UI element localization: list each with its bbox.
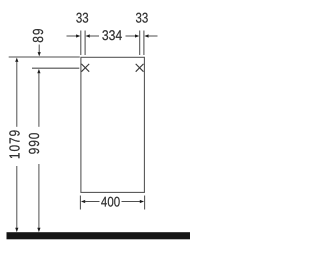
wall reference line top (1079 level) [9, 56, 80, 58]
svg-text:33: 33 [136, 10, 149, 26]
svg-text:1079: 1079 [8, 129, 24, 159]
mounting cross right [136, 64, 144, 72]
dimension 400: extension tick left [79, 196, 81, 210]
dimension 33 right: outside arrow [144, 34, 157, 37]
dimension 400: left arrow [81, 200, 100, 203]
dimension 1079: lower segment and floor arrow [15, 166, 18, 232]
extension tick: cabinet left edge [80, 31, 82, 56]
dimension 334 line right arrow [126, 34, 140, 37]
mounting cross left [81, 64, 89, 72]
dimension 1079: top arrow up [15, 58, 18, 127]
wall reference line mounting (990 level) [32, 67, 79, 69]
dimension 990: lower segment and floor arrow [37, 164, 40, 232]
svg-text:334: 334 [102, 27, 123, 43]
svg-text:990: 990 [27, 132, 43, 155]
floor line [7, 232, 191, 239]
extension tick: cabinet right edge [143, 31, 145, 56]
svg-text:400: 400 [101, 194, 120, 210]
svg-text:89: 89 [31, 28, 47, 43]
cabinet outline [81, 57, 144, 192]
dimension 400: extension tick right [144, 196, 146, 210]
dimension 334 line left arrow [86, 34, 100, 37]
extension tick: left mounting point [84, 31, 86, 56]
svg-text:33: 33 [76, 10, 89, 26]
dimension 33 left: outside arrow [67, 34, 81, 37]
dimension 89: down arrow to top line [38, 45, 41, 57]
extension tick: right mounting point [139, 31, 141, 56]
dimension 400: right arrow [122, 200, 145, 203]
dimension 990: top arrow up [37, 69, 40, 127]
